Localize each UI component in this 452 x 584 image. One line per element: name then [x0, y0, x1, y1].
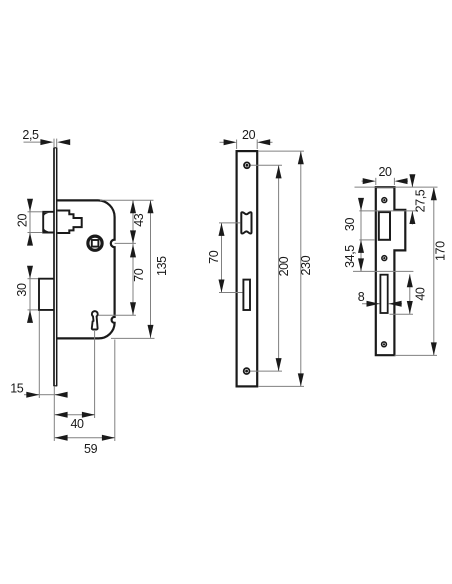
arrowheads RIGHT FIGURE [358, 174, 437, 355]
dim 200 vertical line [278, 165, 280, 371]
arrowheads MIDDLE FIGURE [219, 139, 304, 386]
20 arrows [27, 199, 33, 212]
follower notch extension right [115, 242, 136, 244]
200 arrows [276, 165, 282, 178]
230 arrows [298, 151, 304, 164]
latch hole [379, 212, 390, 240]
keyhole [92, 311, 98, 329]
latch hole bottom extension [359, 239, 375, 241]
top screw hole [382, 198, 387, 203]
20 arrows [224, 139, 237, 145]
keyhole extension right [99, 314, 136, 316]
plate top extension line (long) [355, 186, 438, 188]
15 arrows [26, 392, 39, 398]
svg-text:20: 20 [242, 128, 256, 142]
20 arrows [363, 178, 376, 184]
latch hole top extension (long, crosses plate) [359, 210, 418, 212]
faceplate outline [237, 151, 258, 386]
screw hole extensions right [251, 164, 283, 166]
labels MIDDLE FIGURE [207, 128, 313, 277]
dim 230 vertical line [300, 151, 302, 386]
dim 20 line [362, 180, 365, 182]
follower circle [88, 236, 102, 250]
30 arrows [358, 198, 364, 211]
left dim line (30 / 34,5) [360, 200, 362, 272]
70 arrows [219, 223, 225, 236]
lock body outline [57, 200, 115, 338]
59 arrows (inside, pointing out) [55, 435, 68, 441]
deadbolt cutout [243, 280, 250, 310]
40 arrows (inside, pointing out) [407, 274, 413, 287]
keyhole-axis extension down (40 dim) [94, 331, 96, 418]
plate top corner extensions up [375, 178, 377, 185]
plate bottom extension right [395, 354, 438, 356]
dim 20 vertical line [29, 201, 31, 244]
svg-text:59: 59 [84, 442, 98, 456]
deadbolt-left extension down (15 dim) [38, 311, 40, 398]
svg-text:170: 170 [434, 241, 448, 261]
dim 2,5 leader line [24, 141, 43, 143]
svg-text:34,5: 34,5 [343, 245, 357, 268]
2,5 arrows [40, 139, 53, 145]
40 arrows (inside, pointing out) [55, 412, 68, 418]
svg-text:8: 8 [358, 290, 365, 304]
latch cutout with concave notches [241, 212, 251, 233]
dim 20 line [220, 141, 226, 143]
svg-text:40: 40 [70, 417, 84, 431]
dim 40 line [55, 414, 95, 416]
dim 27,5 vertical line [411, 175, 413, 188]
34,5 bottom arrow [358, 258, 364, 271]
svg-text:135: 135 [155, 256, 169, 276]
bottom screw hole [382, 342, 387, 347]
svg-text:70: 70 [207, 250, 221, 264]
top screw hole [244, 162, 250, 168]
strike plate outline with lip wing [376, 187, 406, 355]
deadbolt slot [380, 275, 387, 313]
follower square hole [92, 240, 99, 247]
svg-text:30: 30 [15, 283, 29, 297]
deadbolt (front box) [39, 279, 54, 310]
latch tail (stepped shape behind faceplate) [58, 211, 82, 234]
slot top extension (long) [353, 270, 413, 272]
latch cutout extension left [219, 222, 240, 224]
dim 135 vertical line [150, 200, 152, 338]
plate top/bottom extensions right [258, 150, 304, 152]
dim 43/70 vertical line [132, 200, 134, 315]
dim 8 line [362, 303, 380, 305]
svg-text:230: 230 [299, 255, 313, 275]
svg-text:15: 15 [10, 382, 24, 396]
svg-text:27,5: 27,5 [414, 189, 428, 212]
svg-text:20: 20 [15, 214, 29, 228]
dim 59 line [55, 437, 115, 439]
faceplate-left extension down [53, 386, 55, 441]
30 arrows [27, 266, 33, 279]
svg-text:43: 43 [132, 213, 146, 227]
body top extension right [100, 199, 154, 201]
dim 15 line [24, 394, 39, 396]
svg-text:200: 200 [277, 256, 291, 276]
svg-text:70: 70 [132, 268, 146, 282]
latch extension lines [28, 211, 43, 213]
body-right extension down (59 dim) [114, 340, 116, 442]
body bottom extension right [111, 337, 155, 339]
plate top corner extensions up [236, 140, 238, 150]
svg-text:30: 30 [343, 218, 357, 232]
thin lines RIGHT FIGURE [353, 175, 438, 356]
135 arrows [148, 200, 154, 213]
8 arrows [367, 301, 380, 307]
svg-text:20: 20 [378, 165, 392, 179]
svg-text:2,5: 2,5 [22, 128, 39, 142]
middle screw hole [382, 256, 387, 261]
dim 30 vertical line [29, 268, 31, 321]
43 arrows [130, 200, 136, 213]
faceplate side view (two vertical lines) [54, 148, 57, 387]
latch bevel marks [44, 213, 49, 216]
deadbolt cutout extension left [219, 292, 243, 294]
svg-text:40: 40 [414, 287, 428, 301]
slot bottom extension [390, 313, 414, 315]
dim 40 vertical line [409, 274, 411, 314]
70 arrows [130, 244, 136, 257]
thin lines MIDDLE FIGURE [219, 140, 304, 387]
faceplate extension lines above [53, 139, 55, 148]
latch bolt head (front box) [43, 212, 54, 233]
deadbolt extension lines [28, 278, 39, 280]
labels RIGHT FIGURE [343, 165, 448, 304]
27,5 arrows [409, 174, 415, 187]
dim 170 vertical line [433, 188, 435, 355]
dim 70 vertical line [221, 223, 223, 293]
bottom screw hole [244, 368, 250, 374]
170 arrows [431, 187, 437, 200]
